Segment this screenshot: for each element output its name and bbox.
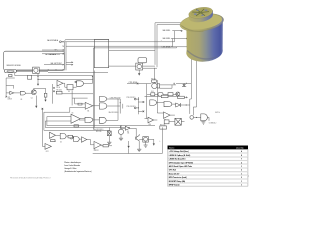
- wire center cluster: [70, 91, 120, 121]
- under-lid shadow: [181, 26, 203, 32]
- resistor mid: [164, 120, 169, 124]
- bottom small row: [151, 93, 155, 96]
- wire chain: [14, 92, 32, 94]
- wire small row: [147, 93, 176, 95]
- wire g2 out: [83, 76, 92, 83]
- wire: [61, 31, 181, 42]
- block R1 sensor de nivel: [4, 51, 65, 70]
- svg-text:2: 2: [241, 162, 242, 164]
- svg-text:OP2: OP2: [46, 151, 49, 153]
- ground arrow: [35, 106, 37, 108]
- wire gateB out: [172, 103, 176, 105]
- svg-text:R5 1k: R5 1k: [57, 87, 61, 89]
- gate G6: [99, 117, 106, 123]
- wire: [66, 39, 187, 47]
- motor M: [118, 129, 123, 134]
- resistor small: [9, 75, 12, 77]
- tank body: [185, 40, 223, 63]
- svg-text:3: 3: [241, 177, 242, 179]
- ground tank low: [201, 122, 205, 124]
- wire y94: [62, 93, 93, 95]
- svg-text:U4: U4: [68, 91, 70, 93]
- block B1: [94, 39, 108, 67]
- svg-text:U6: U6: [72, 113, 74, 115]
- wire staircase nest: [42, 107, 71, 146]
- transistor Q3: [176, 92, 180, 96]
- resistor top a: [161, 95, 168, 98]
- wire resistor vert: [108, 128, 110, 143]
- svg-text:Planta o diseñada por:: Planta o diseñada por:: [64, 161, 81, 164]
- gate G1: [20, 91, 25, 95]
- transistor Q1: [31, 90, 36, 95]
- wire tank top pair: [155, 23, 183, 67]
- gate G7: [60, 133, 66, 139]
- op-amp OA1: [10, 91, 14, 94]
- wire oa7: [157, 113, 175, 115]
- wire grounds mid: [35, 96, 37, 106]
- float sensor circle: [190, 116, 194, 120]
- svg-text:RV3 5k: RV3 5k: [215, 112, 220, 114]
- op-amp Ta: [50, 132, 56, 138]
- svg-text:OPTO Double Oper OPTOISO: OPTO Double Oper OPTOISO: [169, 162, 194, 164]
- op-amp OA4: [71, 114, 80, 123]
- relay RL1: [152, 83, 157, 88]
- wire q2 collector: [138, 134, 140, 149]
- wire motor: [120, 126, 122, 139]
- wire left block pair: [64, 42, 66, 71]
- svg-text:RV2 10k: RV2 10k: [160, 124, 166, 126]
- wire relay: [154, 82, 176, 88]
- wire q1 collector: [34, 88, 46, 99]
- op-amp OA2: [57, 80, 63, 86]
- wire resistors top: [145, 96, 187, 97]
- stub terminals: [181, 30, 182, 31]
- svg-text:Quantity: Quantity: [236, 147, 243, 150]
- op-amp OA5: [85, 102, 93, 109]
- transducer box circle: [33, 67, 40, 73]
- wire val setpoint: [44, 64, 64, 66]
- pump box q2: [143, 137, 149, 143]
- resistor ta: [51, 140, 56, 142]
- op-amp Tb: [45, 144, 51, 150]
- op-amp OA7: [164, 112, 171, 119]
- table: [168, 146, 250, 187]
- wire vertical right: [52, 84, 54, 104]
- svg-text:ASCII Small Open LED Tube: ASCII Small Open LED Tube: [169, 165, 192, 168]
- ground arrow loop: [128, 146, 130, 148]
- gate tank low: [201, 114, 208, 121]
- wire setpoint wires: [42, 50, 64, 54]
- svg-text:2: 2: [241, 170, 242, 172]
- wire from transducer down: [37, 73, 39, 83]
- resistor R9: [152, 80, 157, 82]
- op-amp OA9: [94, 141, 101, 148]
- svg-text:7: 7: [241, 159, 242, 161]
- svg-text:U3: U3: [20, 99, 22, 101]
- circle row comp: [70, 135, 74, 139]
- wire long h: [45, 126, 155, 128]
- box U4: [67, 85, 73, 90]
- svg-text:2N2222: 2N2222: [94, 150, 99, 152]
- ground q2: [137, 149, 141, 151]
- gate G3: [99, 97, 106, 102]
- resistor vertical q1: [44, 93, 47, 97]
- pin x marks: [143, 101, 145, 112]
- signal arrow: [37, 84, 39, 86]
- svg-text:MOSFET Relay (4A): MOSFET Relay (4A): [169, 180, 186, 183]
- svg-text:LM358: LM358: [8, 99, 12, 101]
- resistor vert x: [108, 131, 112, 136]
- wire gateA out: [156, 102, 164, 104]
- resistor RV2: [160, 126, 167, 129]
- wire ctrl nivel: [127, 83, 151, 85]
- pin arrows into block: [63, 41, 64, 70]
- wire stubs right of block: [66, 62, 72, 64]
- wire bus pair: [93, 48, 94, 130]
- feedback loop: [93, 127, 163, 153]
- wire top corner: [65, 40, 109, 41]
- wire c2 ground: [138, 70, 140, 73]
- svg-text:741: 741: [87, 111, 90, 113]
- svg-text:U5: U5: [60, 141, 62, 143]
- wire float: [194, 116, 201, 118]
- svg-text:R9 10k: R9 10k: [151, 78, 156, 80]
- resistor under OA2: [56, 91, 62, 94]
- tank neck: [188, 9, 214, 24]
- wire bus drop: [153, 68, 155, 80]
- diode D3: [176, 103, 181, 107]
- svg-text:1: 1: [241, 185, 242, 187]
- gate A: [150, 100, 157, 106]
- ground arrow c2: [138, 73, 140, 75]
- wire xbox: [169, 121, 185, 123]
- svg-text:CTRL PROCESO: CTRL PROCESO: [110, 98, 122, 100]
- svg-text:LM358 Nat Amplifier: LM358 Nat Amplifier: [169, 158, 186, 161]
- svg-text:Juan Carlos Miranda: Juan Carlos Miranda: [64, 164, 80, 167]
- op-amp Tc: [82, 137, 87, 143]
- resistor row: [68, 135, 72, 138]
- junction: [48, 69, 49, 70]
- wire diode: [174, 83, 191, 85]
- X box: [175, 118, 181, 125]
- tank top ellipse: [179, 11, 225, 34]
- gate G5: [85, 117, 93, 122]
- svg-text:R6 100k: R6 100k: [57, 90, 62, 92]
- svg-text:1: 1: [241, 173, 242, 175]
- svg-text:CONN-SIL2: CONN-SIL2: [209, 122, 217, 124]
- wire tank pipe 1: [190, 57, 192, 114]
- svg-text:Motor DC 5V: Motor DC 5V: [169, 172, 180, 175]
- wire oa9: [101, 145, 112, 147]
- wire gate out: [207, 117, 209, 120]
- svg-text:SENSOR DE NIVEL: SENSOR DE NIVEL: [7, 65, 22, 67]
- svg-text:RV1 10k: RV1 10k: [96, 131, 102, 133]
- wire feedback loop: [6, 78, 15, 97]
- svg-text:CTRL NIVEL: CTRL NIVEL: [162, 46, 171, 48]
- wire sensor row: [17, 70, 65, 72]
- tank bottom shade: [187, 51, 217, 59]
- svg-text:OP1 Rail: OP1 Rail: [169, 170, 177, 172]
- wire to arrow: [153, 139, 155, 143]
- svg-text:NPNP Switch: NPNP Switch: [169, 184, 180, 187]
- wire oa2 to box: [63, 83, 77, 87]
- wire down from pill: [15, 72, 108, 75]
- svg-text:George E. Ulloa: George E. Ulloa: [64, 167, 76, 170]
- transistor Q2: [136, 136, 140, 141]
- wire oa6 in: [120, 126, 125, 129]
- wire oa4 out: [80, 118, 93, 120]
- svg-text:Q1: Q1: [31, 98, 33, 100]
- gate G8: [74, 137, 80, 142]
- svg-text:8: 8: [241, 155, 242, 157]
- wire c2: [108, 50, 157, 68]
- connector pill: [5, 70, 17, 73]
- ground arrow q1: [44, 100, 46, 102]
- gate G4: [99, 103, 106, 109]
- pin arrow low: [6, 96, 7, 97]
- svg-text:1: 1: [241, 181, 242, 183]
- wire long h2: [44, 129, 110, 131]
- ground resistor: [107, 142, 111, 144]
- author text: [64, 161, 92, 173]
- wire: [94, 47, 187, 48]
- resistor top b: [178, 96, 185, 98]
- wire tank pipe 2: [193, 60, 196, 115]
- svg-text:(Estudiantes de Ingenieria Ele: (Estudiantes de Ingenieria Electrica): [64, 170, 92, 173]
- wire diode out: [180, 104, 190, 106]
- svg-text:LM358 N OpAmp (N. Buff): LM358 N OpAmp (N. Buff): [169, 154, 191, 157]
- diode D1: [183, 84, 185, 86]
- tank neck top: [188, 6, 213, 20]
- wire oa8: [145, 119, 158, 120]
- svg-text:741: 741: [127, 133, 130, 135]
- ground arrow: [153, 143, 155, 145]
- wire bottom row: [56, 135, 95, 145]
- pin x mark: [42, 108, 44, 110]
- wire h79: [38, 78, 93, 80]
- svg-text:4: 4: [241, 150, 242, 153]
- gate G2: [77, 81, 84, 87]
- transducer C2 shell: [138, 58, 147, 63]
- tank cap wheel: [190, 7, 212, 19]
- transducer C2: [136, 63, 143, 70]
- svg-text:NPN Transistor (lead): NPN Transistor (lead): [169, 176, 187, 179]
- ground box: [144, 145, 148, 147]
- op-amp OA8: [148, 117, 154, 123]
- resistor small2: [28, 75, 32, 79]
- svg-text:1: 1: [241, 166, 242, 168]
- gate B: [164, 102, 172, 107]
- long verticals right: [147, 80, 158, 119]
- wire box: [139, 139, 154, 145]
- wire b2 verticals: [120, 97, 138, 114]
- resistor under oa4: [74, 125, 79, 127]
- resistor center: [78, 103, 82, 105]
- junction: [94, 47, 95, 48]
- ground motor: [119, 138, 123, 140]
- wire oa6 out: [130, 128, 136, 136]
- svg-text:+12V Voltage Rail (blue): +12V Voltage Rail (blue): [169, 150, 189, 153]
- input circle g2: [75, 81, 77, 83]
- op-amp OA6: [125, 126, 130, 130]
